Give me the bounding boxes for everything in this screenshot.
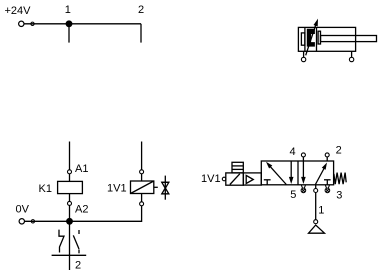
cylinder port left <box>301 51 305 61</box>
wire 0V rail <box>25 206 142 222</box>
contact mirror bar <box>52 254 87 256</box>
port 2 <box>325 153 329 161</box>
valve right diagonal arrow <box>315 163 327 185</box>
junction on 0V rail <box>67 219 73 225</box>
valve left down arrow <box>289 161 294 184</box>
terminal solenoid top <box>140 170 144 174</box>
svg-text:+24V: +24V <box>5 5 32 17</box>
valve body divider <box>297 161 299 185</box>
terminal A1 <box>68 170 72 174</box>
contact NO pictogram <box>73 230 79 253</box>
valve return spring <box>334 173 346 185</box>
terminal solenoid bottom <box>140 202 144 206</box>
valve right blocked port 3 <box>324 180 331 185</box>
valve link marker <box>161 176 169 200</box>
wire coil A1 lead <box>69 174 71 182</box>
terminal dot +24V <box>31 22 34 25</box>
svg-text:5: 5 <box>290 189 296 201</box>
cylinder cushioning seal <box>301 33 305 45</box>
relay coil K1 <box>58 181 83 193</box>
svg-text:1: 1 <box>318 205 324 217</box>
valve solenoid box <box>226 173 244 185</box>
svg-text:1V1: 1V1 <box>107 183 127 195</box>
svg-text:3: 3 <box>336 190 342 202</box>
svg-text:A2: A2 <box>75 204 88 216</box>
terminal circle +24V <box>19 21 24 26</box>
port 1 <box>314 185 318 193</box>
wire A2 to 0V rail <box>69 205 71 221</box>
solenoid coil 1V1 electrical <box>131 181 154 194</box>
cylinder rod bearing <box>318 31 320 44</box>
port 5 blanked <box>301 185 306 193</box>
valve body <box>261 161 333 185</box>
cylinder piston <box>307 29 315 47</box>
valve left diagonal arrow <box>266 162 286 185</box>
wire coil A2 lead <box>69 194 71 202</box>
svg-text:2: 2 <box>75 260 81 272</box>
svg-text:K1: K1 <box>39 183 52 195</box>
cylinder port right <box>349 51 353 61</box>
terminal circle 0V <box>19 219 24 224</box>
svg-text:1V1: 1V1 <box>201 173 221 185</box>
cylinder piston rod <box>321 36 377 42</box>
wire solenoid top lead <box>141 174 143 181</box>
wire contact stem <box>69 221 71 270</box>
svg-text:2: 2 <box>336 144 342 156</box>
wire branch 1 lower <box>69 142 71 170</box>
wire solenoid bottom lead <box>141 194 143 202</box>
svg-text:2: 2 <box>138 4 144 16</box>
port 4 <box>301 153 305 161</box>
svg-text:A1: A1 <box>75 163 88 175</box>
port 3 blanked <box>325 185 330 193</box>
junction node 1 <box>66 21 72 27</box>
svg-text:4: 4 <box>290 146 296 158</box>
svg-text:1: 1 <box>65 4 71 16</box>
wire branch 1 upper <box>68 24 70 43</box>
valve pilot box <box>243 173 261 185</box>
contact NC pictogram <box>59 230 64 253</box>
valve detent ladder <box>232 162 243 173</box>
valve pilot triangle <box>246 175 253 183</box>
wire port 1 to source <box>315 193 317 220</box>
wire 24V rail <box>24 23 141 25</box>
solenoid coil diagonal <box>131 181 154 194</box>
wire solenoid link tick <box>154 186 158 188</box>
valve right down arrow <box>301 161 306 184</box>
cylinder adjust arrow <box>306 19 318 56</box>
valve solenoid terminal <box>222 177 226 181</box>
valve left blocked port 5 <box>264 180 271 185</box>
wire branch 2 lower <box>141 142 143 170</box>
cylinder cap divider left <box>304 27 306 51</box>
terminal dot 0V <box>31 220 34 223</box>
terminal A2 <box>68 201 72 205</box>
wire branch 2 upper <box>140 24 142 43</box>
air source terminal <box>314 220 318 224</box>
compressed air source <box>309 225 325 233</box>
valve solenoid diagonal <box>230 174 240 185</box>
cylinder body <box>298 27 355 51</box>
svg-text:0V: 0V <box>16 204 30 216</box>
cylinder rod divider <box>316 27 318 51</box>
